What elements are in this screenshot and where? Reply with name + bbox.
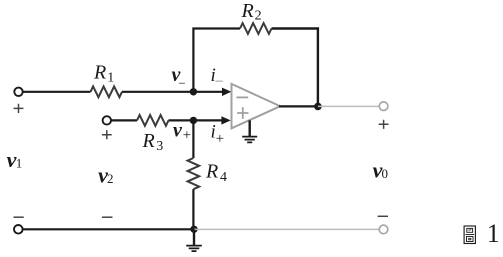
svg-text:2: 2: [107, 171, 114, 186]
resistor R4: [188, 158, 200, 189]
terminal bottom-left (open circle): [14, 225, 23, 234]
ground (bottom rail) bars: [186, 246, 202, 252]
wire: top rail right + right vertical down to output node: [272, 29, 318, 107]
arrowhead i+ into op-amp: [221, 116, 230, 124]
svg-text:2: 2: [255, 8, 262, 23]
wire: R3 to non-inverting input: [169, 119, 224, 121]
svg-text:−: −: [215, 74, 223, 90]
resistor R3: [137, 115, 169, 126]
op-amp U1: [232, 84, 281, 128]
svg-text:3: 3: [156, 139, 163, 154]
resistor R2: [240, 23, 272, 34]
op-amp minus marking: [236, 96, 248, 98]
wire: input 2 from terminal to R3: [111, 119, 137, 121]
svg-text:1: 1: [107, 71, 114, 86]
wire: R4 down to bottom rail: [192, 189, 194, 229]
plus sign output: [379, 120, 389, 129]
wire: output to terminal (gray): [318, 105, 379, 107]
minus sign bottom-right: [378, 215, 388, 217]
svg-text:v: v: [173, 120, 183, 142]
svg-text:1: 1: [487, 219, 500, 248]
svg-text:+: +: [216, 131, 224, 147]
resistor R1: [91, 86, 123, 97]
svg-text:−: −: [178, 76, 185, 91]
minus sign bottom-left: [14, 216, 24, 218]
svg-text:R: R: [142, 130, 155, 152]
op-amp ground stem: [248, 120, 250, 136]
caption figure glyph (CJK tu) drawn as paths: [464, 226, 475, 244]
terminal bottom-right (open circle gray): [379, 225, 388, 234]
node output junction dot: [314, 103, 322, 111]
wire: op-amp output (black): [279, 105, 318, 107]
node v+ junction dot: [190, 117, 197, 124]
node v- junction dot: [190, 88, 197, 95]
minus sign bottom-mid: [102, 216, 113, 218]
svg-text:+: +: [183, 128, 191, 144]
wire: input 1 from terminal to R1: [23, 91, 91, 93]
svg-text:R: R: [93, 62, 106, 84]
svg-text:R: R: [241, 0, 254, 22]
op-amp plus marking: [237, 107, 248, 118]
svg-text:1: 1: [16, 156, 22, 171]
svg-text:R: R: [205, 161, 218, 183]
bottom rail left (black): [23, 228, 194, 230]
bottom rail right (gray): [194, 228, 379, 230]
terminal input 2 (open circle): [103, 116, 111, 124]
ground (bottom rail) stem: [193, 229, 195, 245]
op-amp ground bars: [242, 137, 257, 143]
terminal input 1 (open circle): [14, 88, 22, 96]
wire: v+ node down to R4: [192, 120, 194, 158]
plus sign input 2: [102, 130, 112, 139]
arrowhead i- into op-amp: [222, 88, 231, 96]
plus sign input 1: [14, 104, 24, 113]
svg-text:4: 4: [220, 170, 227, 185]
svg-text:0: 0: [382, 166, 389, 181]
wire: R1 to inverting input: [122, 91, 224, 93]
node bottom junction dot: [190, 226, 197, 233]
wire: feedback loop left vertical and top rail: [193, 29, 240, 92]
terminal output (open circle gray): [379, 102, 388, 111]
